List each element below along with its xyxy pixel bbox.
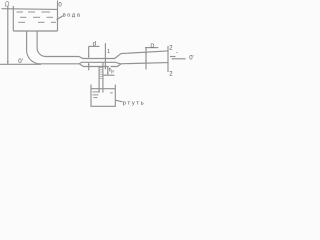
- svg-text:1: 1: [107, 49, 110, 55]
- svg-text:D: D: [150, 43, 154, 49]
- svg-text:вода: вода: [63, 12, 82, 18]
- svg-text:рт: рт: [111, 70, 115, 74]
- svg-text:0': 0': [189, 55, 193, 61]
- svg-text:0': 0': [18, 58, 23, 65]
- svg-text:ртуть: ртуть: [123, 100, 145, 106]
- svg-text:d: d: [93, 41, 96, 47]
